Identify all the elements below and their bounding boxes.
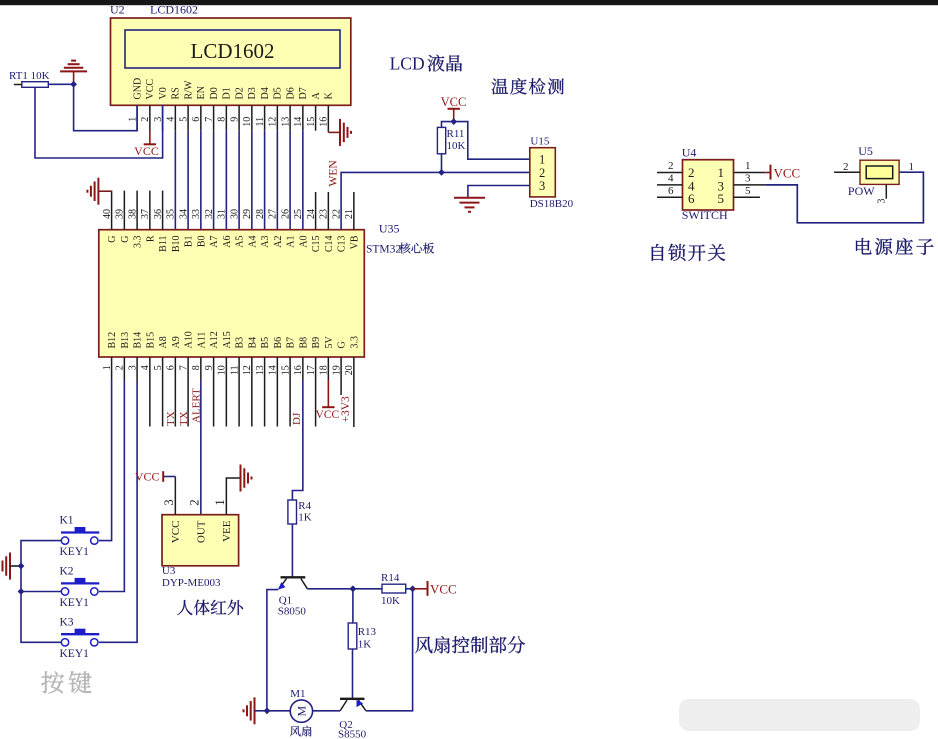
junction M1 ground [264,707,271,714]
label fan CJK [290,726,312,737]
svg-text:1: 1 [539,153,545,167]
svg-text:K: K [324,92,335,100]
MCU top stubs [111,191,113,230]
label temperature-detect CJK [492,78,564,94]
ground at M1 [254,697,256,724]
wire ground node to M1 [267,710,290,712]
svg-text:V0: V0 [158,87,169,99]
svg-text:A9: A9 [171,336,182,348]
svg-text:5V: 5V [324,336,335,349]
connector U5 body [860,160,899,184]
RT1 left stub [14,84,22,86]
ground at U3 pin1 [240,465,242,492]
transistor Q1 bar [281,576,306,578]
svg-text:B13: B13 [120,332,131,349]
wire ground node to LCD pin1 [74,84,138,130]
svg-text:1K: 1K [298,512,312,524]
svg-text:D3: D3 [247,87,258,99]
wire R13 to Q2 base [352,649,354,699]
Q2 left leg [340,700,347,711]
motor M1 circle [290,700,312,722]
svg-text:TX: TX [165,411,177,426]
svg-text:RT1 10K: RT1 10K [9,70,50,82]
svg-text:A15: A15 [222,331,233,348]
svg-text:STM32: STM32 [366,244,401,256]
svg-text:R13: R13 [358,626,377,638]
U5 inner pad [866,166,893,179]
svg-text:LCD1602: LCD1602 [150,3,198,17]
svg-text:R4: R4 [298,500,311,512]
resistor R14 body [382,584,406,593]
junction R11/pin22 wire [438,169,445,176]
svg-text:R: R [145,235,156,242]
label keys CJK gray [41,671,91,693]
svg-text:29: 29 [242,209,253,219]
junction RT1/ground node [70,81,77,88]
label power socket CJK [856,238,934,255]
svg-text:6: 6 [668,185,674,197]
U3 pin3 stub up [174,477,176,515]
svg-text:31: 31 [217,209,228,219]
svg-text:28: 28 [255,209,266,219]
svg-text:3: 3 [745,173,751,185]
svg-text:POW: POW [848,184,875,198]
svg-text:2: 2 [188,499,202,505]
svg-text:27: 27 [268,209,279,219]
svg-text:M1: M1 [290,688,305,700]
svg-text:6: 6 [688,191,695,206]
junction keys ground [18,563,25,570]
wire ground to pin40 [98,190,111,192]
svg-text:SWITCH: SWITCH [682,208,728,222]
ground at keys [9,553,11,580]
svg-text:A2: A2 [273,236,284,248]
junction VCC R11 [450,118,457,125]
ground at MCU pin40 [97,178,99,205]
wire K1 to MCU pin1 [99,380,112,541]
svg-text:TX: TX [178,411,190,426]
svg-text:1: 1 [909,161,915,173]
LCD display inner frame [125,30,340,68]
svg-text:A: A [311,92,322,100]
wire U3 pin1 to ground [226,478,240,515]
resistor R4 body [288,500,297,524]
svg-text:C15: C15 [311,236,322,253]
svg-text:C13: C13 [337,236,348,253]
svg-text:D2: D2 [234,87,245,99]
label human-infrared CJK [177,600,243,615]
power VCC at LCD pin2 [149,130,151,145]
svg-text:1: 1 [745,160,751,172]
U4 pin stubs [657,172,683,174]
svg-text:B14: B14 [133,332,144,349]
wire K2 to MCU pin2 [99,380,124,592]
label fan-control-section CJK [415,636,525,653]
svg-text:KEY1: KEY1 [60,597,90,609]
U5 pin3 stub [885,184,887,198]
svg-text:VCC: VCC [134,144,159,158]
svg-text:M: M [294,705,308,716]
wire keys ground stub [10,565,21,567]
svg-text:10K: 10K [381,595,400,607]
wire node to R13 [352,589,354,623]
svg-text:K3: K3 [60,617,74,629]
svg-text:EN: EN [196,86,207,99]
wires LCD pins 4-14 to MCU [174,131,176,230]
wire ground to junction [255,710,268,712]
svg-text:OUT: OUT [195,520,207,543]
Q1 emitter arrow [278,582,286,590]
wire U4 pin3 to U5 pin1 [765,172,923,223]
svg-text:30: 30 [229,209,240,219]
svg-text:2: 2 [539,166,545,180]
svg-text:RS: RS [171,87,182,99]
power VCC tick U3 [162,471,164,482]
svg-text:D7: D7 [298,87,309,99]
svg-text:5: 5 [745,185,751,197]
svg-text:B7: B7 [286,337,297,349]
svg-text:C14: C14 [324,236,335,253]
svg-text:S8550: S8550 [338,729,367,739]
svg-text:3.3: 3.3 [349,336,360,349]
svg-text:4: 4 [668,173,674,185]
svg-text:3: 3 [877,199,888,204]
IC U4 switch body [683,160,734,210]
svg-text:3: 3 [162,499,176,505]
resistor RT1 body [22,82,49,88]
resistor R13 body [348,623,357,649]
svg-text:GND: GND [132,78,143,100]
power VCC tick U4 [770,165,772,180]
wire Q2 emitter to VCC node [366,589,413,711]
svg-text:LCD: LCD [390,54,425,74]
wire node to VCC [413,588,428,590]
wire U15 pin3 to ground [468,186,530,198]
svg-text:34: 34 [178,209,189,219]
svg-text:WEN: WEN [328,160,340,187]
svg-text:A4: A4 [247,236,258,248]
label self-locking switch CJK [652,244,725,261]
svg-text:U5: U5 [858,144,873,158]
svg-text:K1: K1 [60,515,74,527]
IC U3 PIR body [162,515,239,566]
svg-text:VB: VB [349,235,360,249]
U5 pin2 stub [834,171,860,173]
ground stem [73,71,75,84]
svg-text:A12: A12 [209,331,220,348]
svg-text:B4: B4 [247,337,258,349]
wire U4 pin1 to VCC [765,172,770,174]
junction Q1/R13/R14 [350,585,357,592]
MCU bottom stubs [111,357,113,380]
svg-text:B15: B15 [145,332,156,349]
switch K3 [75,629,86,634]
svg-text:LCD1602: LCD1602 [191,39,275,63]
svg-text:VCC: VCC [145,79,156,100]
top black bar [0,0,938,5]
wire VCC node to U15 pin1 [442,122,530,160]
wire LCD pin16 down [327,131,329,133]
IC U15 DS18B20 body [530,148,556,197]
wire M1 to Q2 [313,710,341,712]
svg-text:A0: A0 [298,236,309,248]
svg-text:VCC: VCC [135,469,160,483]
svg-text:26: 26 [280,209,291,219]
svg-text:5: 5 [718,191,725,206]
svg-text:B3: B3 [235,337,246,349]
wire keys left trunk [21,541,61,643]
wire node to R14 [353,588,382,590]
svg-text:B1: B1 [184,236,195,248]
svg-text:A7: A7 [209,236,220,248]
svg-text:+3V3: +3V3 [340,396,352,423]
svg-text:A11: A11 [196,332,207,349]
svg-text:DJ: DJ [291,412,303,425]
svg-text:G: G [337,341,348,348]
wire LCD pin16 to ground [328,131,340,133]
svg-text:G: G [107,236,118,243]
svg-text:R11: R11 [447,128,465,140]
switch K2 [75,578,86,583]
svg-text:B9: B9 [311,337,322,349]
svg-text:25: 25 [293,209,304,219]
switch K1 [75,527,86,532]
Q2 right leg [358,700,365,711]
wire K2 left [21,591,61,593]
svg-text:DS18B20: DS18B20 [530,198,574,210]
label LCD CJK [428,55,462,72]
svg-text:VCC: VCC [170,521,182,544]
svg-text:B0: B0 [196,236,207,248]
wire MCU pin22 to U15 pin2 [341,172,530,229]
wire MCU pin16 to R4 [292,380,302,500]
svg-text:U15: U15 [530,135,549,147]
svg-text:DYP-ME003: DYP-ME003 [162,577,221,589]
svg-text:A1: A1 [286,236,297,248]
resistor R11 body [437,127,445,153]
svg-text:B5: B5 [260,337,271,349]
ground at LCD pin16 [339,119,341,146]
Q2 emitter arrow [357,700,364,707]
svg-text:3.3: 3.3 [133,236,144,249]
wire RT1 tap to LCD pin3 V0 [35,87,163,158]
svg-text:35: 35 [166,209,177,219]
svg-text:B11: B11 [158,236,169,252]
label core-board CJK [399,243,434,254]
svg-text:B12: B12 [107,332,118,349]
svg-text:D4: D4 [260,87,271,99]
power VCC at MCU pin18 [327,380,329,407]
power VCC above R11 [453,109,455,122]
wire Q1 collector to node [307,588,353,590]
svg-text:3: 3 [539,179,545,193]
junction R14/VCC/Q2 [409,585,416,592]
svg-text:VCC: VCC [441,95,467,109]
wire R11 bottom to pin22 net [441,154,443,173]
wire R4 to Q1 base [291,524,293,577]
Q1 emitter leg [279,579,286,589]
svg-text:32: 32 [204,209,215,219]
svg-text:VCC: VCC [430,581,457,596]
ground at U15 pin3 [454,197,485,199]
svg-text:D5: D5 [273,87,284,99]
IC U35 STM32 core board body [99,230,365,357]
svg-text:R14: R14 [381,572,400,584]
Q1 collector leg [301,579,308,589]
svg-text:A10: A10 [184,331,195,348]
wire VCC to U3 pin3 [163,476,175,478]
svg-text:A5: A5 [235,236,246,248]
svg-text:A8: A8 [158,336,169,348]
wire R14 to VCC node [406,588,413,590]
IC U2 LCD1602 body [111,18,351,105]
svg-text:D0: D0 [209,87,220,99]
svg-text:U4: U4 [682,146,697,160]
svg-text:2: 2 [843,161,849,173]
svg-text:B8: B8 [298,337,309,349]
svg-text:U3: U3 [162,565,176,577]
svg-text:1K: 1K [358,639,372,651]
svg-text:VCC: VCC [774,165,801,180]
svg-text:KEY1: KEY1 [60,546,90,558]
svg-text:VEE: VEE [221,520,233,542]
transistor Q2 bar [340,698,365,700]
svg-text:U2: U2 [110,3,125,17]
watermark box [679,699,920,731]
svg-text:33: 33 [191,209,202,219]
svg-text:1: 1 [213,499,227,505]
svg-text:K2: K2 [60,566,74,578]
junction K2 trunk [18,588,25,595]
svg-text:D6: D6 [285,87,296,99]
svg-text:B10: B10 [171,236,182,253]
svg-text:D1: D1 [222,87,233,99]
power VCC tick R14 [427,581,429,596]
svg-text:A3: A3 [260,236,271,248]
svg-text:S8050: S8050 [278,605,307,617]
svg-text:R/W: R/W [183,80,194,99]
svg-text:U35: U35 [379,222,400,236]
wire MCU pin8 to U3 OUT [200,380,202,515]
LCD pin stubs [136,105,138,130]
svg-text:G: G [120,236,131,243]
svg-text:10K: 10K [447,140,466,152]
wire RT1 to ground node [48,83,73,85]
svg-text:VCC: VCC [316,409,340,421]
ground above RT1 node [60,70,87,72]
svg-text:KEY1: KEY1 [60,648,90,660]
svg-text:2: 2 [668,160,674,172]
wire K3 to MCU pin3 [99,380,137,642]
svg-text:B6: B6 [273,337,284,349]
wire Q1 emitter down [267,590,278,711]
svg-text:A6: A6 [222,236,233,248]
